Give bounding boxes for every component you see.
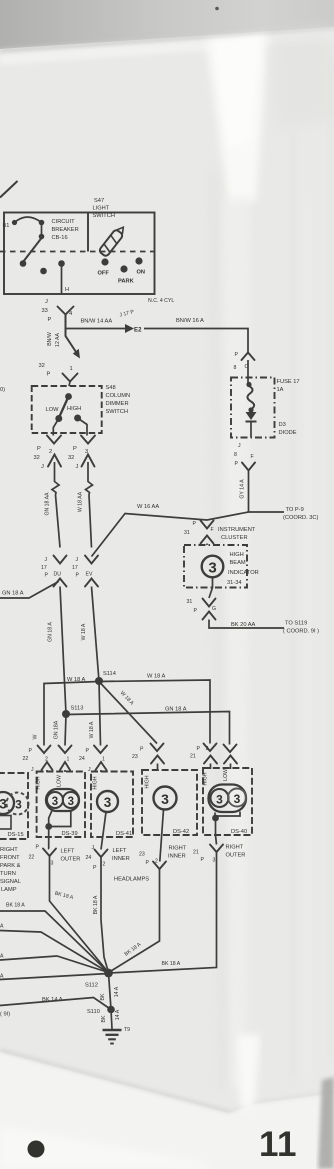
- svg-text:DS-39: DS-39: [62, 831, 78, 837]
- svg-text:W 18 A: W 18 A: [89, 721, 95, 738]
- svg-text:1: 1: [70, 366, 73, 372]
- svg-text:P: P: [47, 372, 51, 378]
- svg-text:S48: S48: [106, 385, 116, 391]
- svg-text:OUTER: OUTER: [61, 857, 81, 863]
- svg-text:P: P: [197, 746, 201, 752]
- svg-text:P: P: [146, 860, 150, 866]
- svg-text:GN 18 AA: GN 18 AA: [45, 492, 51, 516]
- svg-text:3: 3: [161, 791, 169, 807]
- svg-text:BREAKER: BREAKER: [52, 227, 79, 233]
- svg-text:LEFT: LEFT: [61, 849, 75, 855]
- svg-text:DS-42: DS-42: [173, 829, 189, 835]
- svg-text:LAMP: LAMP: [1, 887, 17, 893]
- svg-text:W 16 AA: W 16 AA: [137, 504, 159, 510]
- svg-text:0): 0): [0, 387, 5, 393]
- svg-text:HIGH: HIGH: [93, 776, 99, 789]
- svg-text:RIGHT: RIGHT: [226, 845, 244, 851]
- svg-text:N.C. 4 CYL: N.C. 4 CYL: [148, 298, 174, 304]
- svg-text:S113: S113: [71, 706, 84, 712]
- svg-text:P: P: [76, 573, 80, 579]
- svg-text:3: 3: [208, 560, 216, 577]
- svg-text:J: J: [41, 464, 44, 470]
- svg-text:J: J: [88, 767, 91, 773]
- svg-text:J: J: [45, 299, 48, 305]
- svg-text:LOW: LOW: [46, 407, 60, 413]
- svg-text:17: 17: [41, 565, 47, 571]
- svg-text:P: P: [73, 446, 77, 452]
- svg-text:COLUMN: COLUMN: [106, 393, 131, 399]
- svg-text:J: J: [45, 557, 48, 563]
- svg-text:3: 3: [0, 796, 7, 812]
- svg-text:P: P: [37, 446, 41, 452]
- svg-text:F: F: [211, 527, 214, 533]
- svg-text:23: 23: [139, 852, 145, 858]
- svg-text:J: J: [76, 557, 79, 563]
- svg-text:3: 3: [216, 792, 223, 806]
- svg-text:TO P-9: TO P-9: [286, 507, 304, 513]
- svg-text:CLUSTER: CLUSTER: [221, 535, 248, 541]
- svg-text:INNER: INNER: [168, 854, 186, 860]
- svg-text:P: P: [201, 857, 205, 863]
- svg-text:31: 31: [184, 530, 190, 536]
- svg-text:LEFT: LEFT: [113, 848, 127, 854]
- svg-text:W 18 AA: W 18 AA: [78, 491, 84, 512]
- svg-text:GN 18 A: GN 18 A: [2, 591, 24, 597]
- svg-text:8: 8: [234, 365, 237, 371]
- svg-text:P: P: [45, 573, 49, 579]
- svg-text:OUTER: OUTER: [226, 853, 246, 859]
- svg-text:RIGHT: RIGHT: [169, 846, 187, 852]
- svg-text:W 18 A: W 18 A: [81, 623, 87, 640]
- svg-text:DS-41: DS-41: [116, 831, 132, 837]
- svg-text:BEAM: BEAM: [230, 560, 246, 566]
- svg-text:33: 33: [42, 308, 48, 314]
- svg-text:A: A: [0, 924, 4, 930]
- svg-text:SIGNAL: SIGNAL: [0, 879, 21, 885]
- svg-text:SWITCH: SWITCH: [93, 213, 115, 219]
- svg-text:INSTRUMENT: INSTRUMENT: [218, 527, 256, 533]
- svg-text:P: P: [29, 748, 33, 754]
- svg-text:SWITCH: SWITCH: [106, 409, 128, 415]
- svg-text:CB-16: CB-16: [52, 235, 68, 241]
- svg-text:TURN: TURN: [0, 871, 16, 877]
- svg-text:GY 14 A: GY 14 A: [240, 479, 246, 499]
- svg-text:W 18 A: W 18 A: [67, 677, 86, 683]
- svg-text:8: 8: [234, 452, 237, 458]
- svg-text:OFF: OFF: [98, 271, 110, 277]
- svg-text:3: 3: [234, 792, 241, 806]
- svg-text:1A: 1A: [277, 387, 284, 393]
- svg-text:14 A: 14 A: [115, 1009, 121, 1020]
- svg-text:BN/W: BN/W: [47, 332, 53, 346]
- svg-text:HIGH: HIGH: [145, 775, 151, 788]
- svg-text:FRONT: FRONT: [0, 855, 20, 861]
- svg-text:GN 18 A: GN 18 A: [165, 707, 187, 713]
- svg-text:2: 2: [206, 746, 209, 752]
- svg-text:( COORD. 9I ): ( COORD. 9I ): [283, 629, 319, 635]
- svg-text:BK: BK: [100, 993, 106, 1000]
- svg-text:H: H: [65, 287, 69, 293]
- svg-text:GN 18 A: GN 18 A: [48, 622, 54, 642]
- svg-text:DU: DU: [54, 572, 62, 578]
- svg-text:P: P: [193, 521, 197, 527]
- svg-text:PARK: PARK: [118, 279, 135, 285]
- svg-text:3: 3: [104, 795, 112, 810]
- svg-text:3: 3: [213, 858, 216, 864]
- svg-text:( 9I): ( 9I): [0, 1012, 10, 1018]
- svg-text:BK: BK: [101, 1015, 107, 1022]
- svg-text:32: 32: [68, 455, 74, 461]
- svg-text:24: 24: [79, 756, 85, 762]
- svg-text:HIGH: HIGH: [67, 406, 81, 412]
- svg-text:W: W: [33, 734, 39, 739]
- svg-text:S110: S110: [87, 1009, 100, 1015]
- svg-text:BK 18 A: BK 18 A: [6, 903, 25, 909]
- svg-text:BK 18 A: BK 18 A: [93, 895, 99, 914]
- svg-text:DS-15: DS-15: [8, 832, 24, 838]
- svg-text:CIRCUIT: CIRCUIT: [52, 219, 76, 225]
- svg-text:3: 3: [51, 861, 54, 867]
- svg-text:P: P: [86, 748, 90, 754]
- svg-text:S112: S112: [85, 983, 98, 989]
- svg-text:(COORD. 3C): (COORD. 3C): [283, 515, 318, 521]
- svg-text:A: A: [0, 954, 4, 960]
- svg-text:HIGH: HIGH: [36, 776, 42, 789]
- svg-text:S47: S47: [94, 198, 104, 204]
- svg-text:G: G: [212, 606, 216, 612]
- svg-text:12 AA: 12 AA: [55, 333, 61, 347]
- svg-text:1: 1: [102, 757, 105, 763]
- svg-text:11: 11: [259, 1125, 297, 1164]
- svg-text:24: 24: [86, 855, 92, 861]
- svg-text:HIGH: HIGH: [230, 552, 244, 558]
- svg-text:J: J: [31, 767, 34, 773]
- svg-text:P: P: [48, 317, 52, 323]
- svg-text:F: F: [251, 454, 254, 460]
- svg-text:INNER: INNER: [112, 856, 130, 862]
- svg-text:S114: S114: [103, 671, 116, 677]
- svg-text:LIGHT: LIGHT: [93, 206, 110, 212]
- svg-text:PARK &: PARK &: [0, 863, 21, 869]
- svg-text:LOW: LOW: [223, 769, 229, 781]
- svg-text:31: 31: [187, 599, 193, 605]
- svg-text:B1: B1: [3, 223, 10, 229]
- svg-text:31-34: 31-34: [227, 580, 242, 586]
- svg-text:INDICATOR: INDICATOR: [228, 570, 259, 576]
- svg-text:P: P: [93, 865, 97, 871]
- svg-text:3: 3: [15, 798, 22, 812]
- svg-text:ON: ON: [137, 270, 146, 276]
- svg-text:BK 20 AA: BK 20 AA: [231, 622, 256, 628]
- svg-text:P: P: [194, 608, 198, 614]
- svg-text:2: 2: [103, 862, 106, 868]
- svg-text:3: 3: [68, 796, 74, 808]
- svg-text:FUSE 17: FUSE 17: [277, 379, 300, 385]
- svg-text:BN/W 14 AA: BN/W 14 AA: [81, 319, 113, 325]
- svg-text:T9: T9: [124, 1027, 130, 1033]
- svg-text:DIMMER: DIMMER: [106, 401, 129, 407]
- svg-text:32: 32: [34, 455, 40, 461]
- svg-text:P: P: [140, 747, 144, 753]
- svg-text:DIODE: DIODE: [279, 430, 297, 436]
- svg-text:22: 22: [23, 756, 29, 762]
- svg-text:J: J: [238, 443, 241, 449]
- svg-text:DS-40: DS-40: [231, 829, 247, 835]
- svg-text:21: 21: [193, 850, 199, 856]
- svg-text:22: 22: [29, 855, 35, 861]
- svg-text:21: 21: [190, 754, 196, 760]
- svg-text:32: 32: [39, 363, 45, 369]
- svg-text:P: P: [36, 845, 40, 851]
- svg-text:RIGHT: RIGHT: [0, 847, 18, 853]
- svg-text:P: P: [235, 352, 239, 358]
- svg-text:LOW: LOW: [57, 775, 63, 787]
- svg-text:BN/W 16 A: BN/W 16 A: [176, 318, 204, 324]
- svg-text:W 18 A: W 18 A: [147, 674, 166, 680]
- svg-text:BK 18 A: BK 18 A: [162, 961, 181, 967]
- svg-text:23: 23: [132, 754, 138, 760]
- svg-text:D3: D3: [279, 422, 286, 428]
- svg-text:14 A: 14 A: [114, 986, 120, 997]
- svg-text:GN 18A: GN 18A: [54, 720, 60, 739]
- svg-text:HEADLAMPS: HEADLAMPS: [114, 877, 149, 883]
- svg-text:4: 4: [69, 311, 72, 317]
- svg-text:3: 3: [52, 796, 58, 808]
- svg-text:HIGH: HIGH: [203, 772, 209, 785]
- svg-text:1: 1: [67, 757, 70, 763]
- svg-text:E2: E2: [134, 327, 142, 334]
- svg-text:EV: EV: [86, 572, 93, 578]
- svg-text:P: P: [235, 461, 239, 467]
- svg-text:TO S119: TO S119: [285, 621, 307, 627]
- svg-text:17: 17: [72, 565, 78, 571]
- svg-text:J: J: [76, 464, 79, 470]
- svg-text:2: 2: [49, 449, 52, 455]
